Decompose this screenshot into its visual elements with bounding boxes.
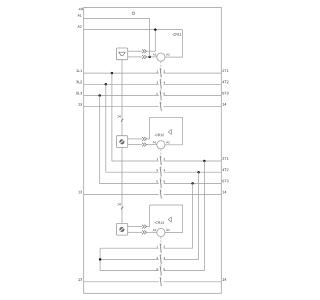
main contact 3-4 of -CR12 <box>160 167 161 176</box>
wire connector to A2 branch <box>147 50 156 52</box>
wire rail 14 right block2 <box>164 193 222 195</box>
interface module box U2 (suppressor/driver) for -CR12 <box>116 136 127 148</box>
main contact 1-2 of -CR11 <box>160 68 161 77</box>
marker circle on top edge <box>132 12 135 15</box>
wire module U3 pin1 to plug connector <box>128 226 142 228</box>
device label -CR13 <box>155 221 164 223</box>
plug connector X2.1 <box>142 137 147 141</box>
indicator symbol inside module U3 <box>119 227 124 232</box>
wire coil A2 loop left vertical <box>149 117 151 139</box>
wire rail A2 <box>84 29 183 31</box>
wire elbow to rail CR13 row2 <box>164 258 199 260</box>
wire coil A2 of -CR11 to loop <box>165 56 183 58</box>
wire number marker 14 on chain wire <box>121 207 123 210</box>
contactor coil -CR12 <box>157 141 165 149</box>
horn symbol inside module U1 <box>119 52 125 55</box>
coil terminal label A2 of -CR11 <box>166 53 169 55</box>
junction dot out2 <box>197 171 200 174</box>
wire rail CR12 out2 <box>164 171 222 173</box>
terminal label 13 block2 <box>78 191 82 194</box>
terminal label 13 block3 <box>78 278 82 281</box>
wire rail 5L3 left <box>84 95 159 97</box>
wire coil A2 loop top <box>150 204 183 206</box>
device label -CR11 <box>172 33 181 35</box>
phase feeder L3 to CR12 <box>99 96 101 184</box>
junction dot 1L1 <box>111 72 114 75</box>
wire rail 13 left block2 <box>84 193 159 195</box>
plug connector X1.2 <box>142 55 147 59</box>
wire connector to coil A1 <box>147 144 157 146</box>
wire connector to coil A1 <box>147 231 157 233</box>
phase feeder L1 to CR12 <box>111 73 113 161</box>
terminal label 2T1 block2 <box>222 157 228 160</box>
plug connector X2.2 <box>142 143 147 147</box>
wire rail CR12 in2 <box>106 171 159 173</box>
contactor coil -CR13 <box>157 228 165 236</box>
enclosure box -CR <box>84 8 222 294</box>
contactor coil -CR11 <box>157 53 165 61</box>
coil terminal label A1 of -CR12 <box>153 141 156 143</box>
wire loop right vertical of -CR12 <box>182 117 184 145</box>
swap feeder T3 to CR13 contact 1-2 <box>192 183 194 248</box>
wire elbow to rail CR13 row1 <box>164 247 193 249</box>
wire rail CR13 in3 <box>100 270 159 272</box>
plug connector X1.1 <box>142 49 147 53</box>
main contact 1-2 of -CR13 <box>160 244 161 253</box>
phase feeder L2 to CR12 <box>105 84 107 172</box>
aux contact 13-14 of -CR11 <box>160 102 161 111</box>
terminal label A2 <box>78 25 82 27</box>
wire coil A2 of -CR13 to loop <box>165 232 183 234</box>
junction dot 5L3 <box>98 94 101 97</box>
wire module U1 pin1 to plug connector <box>128 50 142 52</box>
main contact 3-4 of -CR11 <box>160 79 161 88</box>
wire loop right vertical of -CR11 <box>182 30 184 57</box>
wire rail 14 right block1 <box>164 106 222 108</box>
wire rail 4T2 right <box>164 83 222 85</box>
main contact 5-6 of -CR11 <box>160 91 161 100</box>
wire rail A1 <box>84 17 150 19</box>
junction dot star point <box>99 258 102 261</box>
mechanical linkage of -CR13 <box>160 237 162 282</box>
swap feeder T1 to CR13 contact 5-6 <box>203 161 205 271</box>
coil terminal label A2 of -CR12 <box>166 141 169 143</box>
junction dot node A1 <box>148 56 151 59</box>
swap feeder T2 to CR13 contact 3-4 <box>198 172 200 259</box>
wire rail CR13 in2 <box>100 258 159 260</box>
wire elbow to rail CR13 row3 <box>164 270 205 272</box>
terminal label 14 block2 <box>223 191 227 194</box>
terminal label 2T1 <box>222 69 228 72</box>
interlock arrow of -CR13 <box>168 217 171 222</box>
device tag -CR <box>78 8 83 10</box>
wire rail 13 left block1 <box>84 106 159 108</box>
indicator symbol inside module U2 <box>119 139 124 144</box>
terminal label 1L1 <box>76 69 82 72</box>
wire rail CR12 out3 <box>164 182 222 184</box>
main contact 5-6 of -CR13 <box>160 266 161 275</box>
coil terminal label A1 of -CR11 <box>153 54 156 56</box>
plug connector X3.1 <box>142 225 147 229</box>
wire loop right vertical of -CR13 <box>182 205 184 233</box>
wire rail CR13 in1 <box>100 247 159 249</box>
terminal label 14 block3 <box>223 278 227 281</box>
wire A2 branch vertical <box>154 30 156 52</box>
wire rail CR12 in1 <box>112 160 159 162</box>
wire module U3 pin2 to plug connector <box>128 231 142 233</box>
wire connector to coil A2 loop <box>147 138 150 140</box>
wire rail 13 left block3 <box>84 281 159 283</box>
plug connector X3.2 <box>142 230 147 234</box>
terminal label A1 <box>78 14 82 16</box>
wire module U2 pin2 to plug connector <box>128 144 142 146</box>
wire rail 14 right block3 <box>164 281 222 283</box>
terminal label 13 block1 <box>78 103 82 106</box>
terminal label 14 block1 <box>223 103 227 106</box>
wire coil A2 loop left vertical <box>149 205 151 227</box>
module chain wire below U2 <box>121 147 123 223</box>
wire A1 rail drop <box>149 18 151 57</box>
coil terminal label A2 of -CR13 <box>166 229 169 231</box>
module chain wire below U1 <box>121 60 123 136</box>
wire rail CR12 in3 <box>100 182 159 184</box>
wire rail 3L2 left <box>84 83 159 85</box>
mechanical linkage of -CR11 <box>160 61 162 106</box>
wire connector to coil A2 loop <box>147 226 150 228</box>
interlock arrow of -CR12 <box>168 129 171 134</box>
aux contact 13-14 of -CR12 <box>160 190 161 199</box>
wire module U1 pin2 to plug connector <box>128 56 142 58</box>
terminal label 6T3 block2 <box>222 180 228 183</box>
wire connector to coil A1 node <box>147 56 157 58</box>
terminal label 4T2 block2 <box>222 169 228 172</box>
junction dot out3 <box>191 182 194 185</box>
wire module U2 pin1 to plug connector <box>128 138 142 140</box>
main contact 3-4 of -CR13 <box>160 255 161 264</box>
junction dot on A2 rail <box>154 28 157 31</box>
mechanical linkage of -CR12 <box>160 149 162 194</box>
device label -CR12 <box>155 134 164 136</box>
junction dot 3L2 <box>105 83 108 86</box>
wire coil A2 of -CR12 to loop <box>165 144 183 146</box>
wire number marker 14 on chain wire <box>121 119 123 122</box>
main contact 1-2 of -CR12 <box>160 156 161 165</box>
wire rail CR12 out1 <box>164 160 222 162</box>
wire rail 1L1 left <box>84 72 159 74</box>
wire rail 6T3 right <box>164 95 222 97</box>
wire rail 2T1 right <box>164 72 222 74</box>
terminal label 3L2 <box>76 81 82 84</box>
terminal label 4T2 <box>222 81 228 84</box>
wire coil A2 loop top <box>150 116 183 118</box>
interface module box U3 (suppressor/driver) for -CR13 <box>116 223 127 235</box>
junction dot out1 <box>203 160 206 163</box>
star point bracket vertical <box>99 248 101 270</box>
aux contact 13-14 of -CR13 <box>160 277 161 286</box>
interface module box U1 (suppressor/driver) for -CR11 <box>116 48 127 60</box>
main contact 5-6 of -CR12 <box>160 178 161 187</box>
coil terminal label A1 of -CR13 <box>153 229 156 231</box>
terminal label 5L3 <box>76 92 82 95</box>
terminal label 6T3 <box>222 92 228 95</box>
